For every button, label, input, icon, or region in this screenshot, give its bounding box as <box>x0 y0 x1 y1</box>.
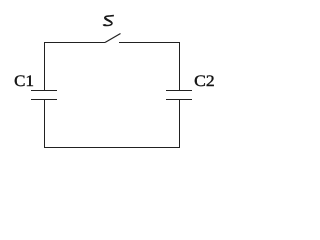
wire: right vertical upper segment (to C2 top plate) <box>179 42 181 91</box>
wire: left vertical upper segment (to C1 top plate) <box>44 42 46 91</box>
circuit schematic: capacitors C1 and C2 in a loop joined through open switch S <box>0 0 229 163</box>
label S (switch, italic glyph drawn as path) <box>103 16 114 26</box>
wire: top-left horizontal segment (top wire from left corner to switch pivot) <box>44 42 105 44</box>
wire: bottom horizontal segment <box>44 147 180 149</box>
capacitor C1 bottom plate <box>31 99 57 101</box>
svg-text:C2: C2 <box>194 73 215 90</box>
capacitor C2 bottom plate <box>166 99 192 101</box>
wire: top-right horizontal segment (switch throw to right corner) <box>119 42 180 44</box>
svg-text:C1: C1 <box>14 73 34 90</box>
wire: right vertical lower segment (C2 bottom plate to bottom-right corner) <box>179 99 181 148</box>
capacitor C1 top plate <box>31 90 57 92</box>
switch S blade (open, antialiased diagonal) <box>105 34 121 43</box>
wire: left vertical lower segment (C1 bottom plate to bottom-left corner) <box>44 99 46 148</box>
label S bottom-left terminal flare <box>104 24 107 26</box>
label S spine thickening <box>105 17 111 22</box>
capacitor C2 top plate <box>166 90 192 92</box>
